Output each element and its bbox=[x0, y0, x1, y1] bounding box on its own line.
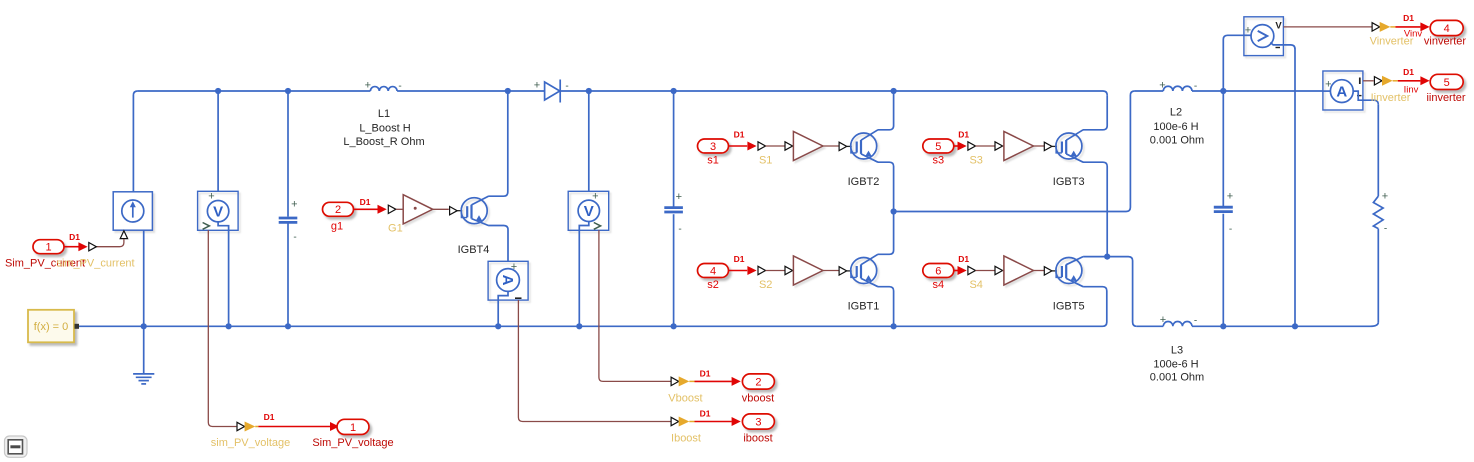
svg-text:L1: L1 bbox=[378, 108, 390, 120]
svg-text:1: 1 bbox=[350, 422, 356, 434]
svg-text:Vinverter: Vinverter bbox=[1370, 36, 1414, 48]
svg-text:+: + bbox=[291, 199, 297, 211]
svg-text:vboost: vboost bbox=[742, 393, 774, 405]
svg-text:-: - bbox=[565, 81, 568, 92]
svg-text:+: + bbox=[1160, 314, 1166, 326]
svg-text:5: 5 bbox=[1444, 77, 1450, 89]
svg-text:D1: D1 bbox=[734, 130, 745, 140]
svg-text:IGBT4: IGBT4 bbox=[458, 244, 490, 256]
svg-text:D1: D1 bbox=[734, 254, 745, 264]
svg-text:-: - bbox=[1194, 81, 1197, 92]
svg-text:+: + bbox=[208, 190, 214, 202]
svg-text:IGBT3: IGBT3 bbox=[1053, 176, 1085, 188]
svg-text:+: + bbox=[1325, 79, 1331, 91]
svg-text:+: + bbox=[511, 261, 517, 273]
svg-text:iboost: iboost bbox=[743, 433, 772, 445]
svg-text:Iinverter: Iinverter bbox=[1371, 92, 1411, 104]
svg-text:2: 2 bbox=[755, 376, 761, 388]
svg-text:vinverter: vinverter bbox=[1424, 36, 1467, 48]
svg-text:S3: S3 bbox=[969, 154, 982, 166]
svg-text:-: - bbox=[1194, 316, 1197, 327]
svg-text:A: A bbox=[499, 275, 516, 286]
svg-text:D1: D1 bbox=[69, 232, 80, 242]
svg-text:6: 6 bbox=[935, 265, 941, 277]
svg-text:sim_PV_voltage: sim_PV_voltage bbox=[211, 437, 291, 449]
svg-text:iinverter: iinverter bbox=[1426, 92, 1465, 104]
svg-text:S2: S2 bbox=[759, 279, 772, 291]
svg-text:D1: D1 bbox=[360, 197, 371, 207]
svg-text:4: 4 bbox=[710, 265, 716, 277]
svg-text:D1: D1 bbox=[1403, 13, 1414, 23]
svg-text:A: A bbox=[1336, 83, 1347, 100]
svg-text:L3: L3 bbox=[1171, 345, 1183, 357]
svg-text:V: V bbox=[584, 203, 594, 220]
svg-text:0.001 Ohm: 0.001 Ohm bbox=[1150, 372, 1204, 384]
svg-text:5: 5 bbox=[935, 141, 941, 153]
svg-text:f(x) = 0: f(x) = 0 bbox=[34, 321, 69, 333]
svg-text:s2: s2 bbox=[707, 279, 719, 291]
svg-text:Vboost: Vboost bbox=[668, 393, 702, 405]
svg-text:100e-6 H: 100e-6 H bbox=[1153, 121, 1198, 133]
svg-text:2: 2 bbox=[335, 204, 341, 216]
svg-text:D1: D1 bbox=[958, 254, 969, 264]
svg-text:+: + bbox=[592, 190, 598, 202]
svg-text:S1: S1 bbox=[759, 154, 772, 166]
svg-text:-: - bbox=[1384, 224, 1387, 235]
svg-text:D1: D1 bbox=[1403, 67, 1414, 77]
svg-text:D1: D1 bbox=[700, 368, 711, 378]
svg-text:s4: s4 bbox=[932, 279, 944, 291]
svg-text:S4: S4 bbox=[969, 279, 982, 291]
svg-text:D1: D1 bbox=[264, 412, 275, 422]
svg-text:+: + bbox=[676, 191, 682, 203]
svg-text:+: + bbox=[365, 79, 371, 91]
svg-text:V: V bbox=[1275, 21, 1282, 32]
svg-text:-: - bbox=[293, 232, 296, 243]
svg-text:G1: G1 bbox=[388, 223, 403, 235]
svg-text:D1: D1 bbox=[700, 409, 711, 419]
svg-text:+: + bbox=[1245, 24, 1251, 36]
svg-text:1: 1 bbox=[45, 242, 51, 254]
svg-text:IGBT1: IGBT1 bbox=[848, 300, 880, 312]
svg-text:IGBT2: IGBT2 bbox=[848, 176, 880, 188]
svg-text:L_Boost H: L_Boost H bbox=[359, 123, 410, 135]
svg-text:L2: L2 bbox=[1170, 107, 1182, 119]
svg-text:V: V bbox=[213, 203, 223, 220]
svg-text:L_Boost_R Ohm: L_Boost_R Ohm bbox=[343, 136, 424, 148]
svg-text:Sim_PV_voltage: Sim_PV_voltage bbox=[312, 437, 393, 449]
svg-text:g1: g1 bbox=[331, 221, 343, 233]
svg-text:s3: s3 bbox=[932, 155, 944, 167]
svg-text:+: + bbox=[1159, 79, 1165, 91]
svg-text:-: - bbox=[398, 81, 401, 92]
svg-text:+: + bbox=[1382, 190, 1388, 202]
svg-text:4: 4 bbox=[1444, 23, 1450, 35]
svg-text:IGBT5: IGBT5 bbox=[1053, 300, 1085, 312]
svg-text:3: 3 bbox=[755, 416, 761, 428]
svg-text:Iboost: Iboost bbox=[671, 433, 701, 445]
svg-text:-: - bbox=[678, 224, 681, 235]
svg-text:+: + bbox=[534, 79, 540, 91]
svg-text:3: 3 bbox=[710, 141, 716, 153]
svg-text:sim_PV_current: sim_PV_current bbox=[56, 258, 134, 270]
svg-text:+: + bbox=[1227, 190, 1233, 202]
svg-text:0.001 Ohm: 0.001 Ohm bbox=[1150, 135, 1204, 147]
svg-text:s1: s1 bbox=[707, 155, 719, 167]
svg-text:D1: D1 bbox=[958, 130, 969, 140]
svg-text:-: - bbox=[1229, 224, 1232, 235]
svg-text:100e-6 H: 100e-6 H bbox=[1153, 359, 1198, 371]
